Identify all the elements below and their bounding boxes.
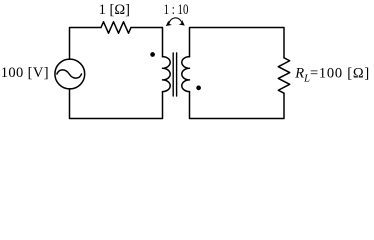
svg-text:1 [Ω]: 1 [Ω] <box>99 2 130 18</box>
resistor R1 1 ohm zigzag <box>101 22 131 33</box>
transformer core line 2 <box>176 53 178 96</box>
arrowhead right <box>179 20 185 26</box>
wire resistor to transformer primary top <box>131 28 163 57</box>
resistor RL zigzag <box>278 58 289 93</box>
svg-text:100 [V]: 100 [V] <box>1 65 49 81</box>
transformer core line 1 <box>172 53 174 96</box>
wire secondary bottom to load bottom <box>190 92 285 119</box>
arrowhead left <box>166 20 172 26</box>
polarity dot primary <box>150 52 155 57</box>
wire top-left from source to resistor <box>70 28 102 60</box>
transformer secondary coil L2 <box>182 57 190 92</box>
source V1 circle <box>55 59 85 89</box>
svg-text:1 : 10: 1 : 10 <box>164 2 189 18</box>
turns-ratio arc arrow <box>169 18 183 24</box>
wire primary bottom to source <box>70 89 163 119</box>
transformer primary coil L1 <box>163 57 171 92</box>
sine symbol inside source <box>57 70 82 78</box>
svg-text:RL=100 [Ω]: RL=100 [Ω] <box>294 66 370 85</box>
polarity dot secondary <box>196 86 201 91</box>
wire secondary top to load top <box>190 28 285 58</box>
